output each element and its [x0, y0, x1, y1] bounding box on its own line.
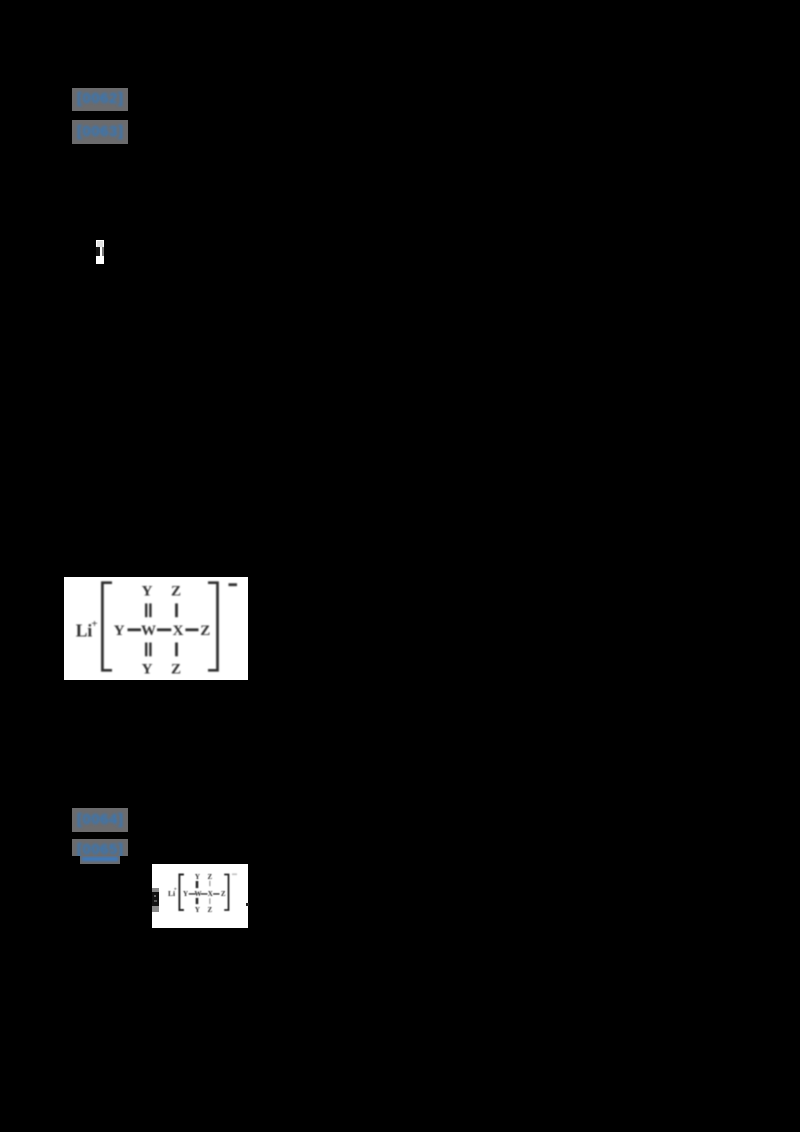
double bond bottom (blob) — [196, 898, 199, 904]
svg-text:Y: Y — [183, 890, 188, 898]
svg-text:Y: Y — [195, 906, 200, 914]
left bracket — [102, 583, 112, 671]
faint superscript minus — [232, 873, 237, 875]
tiny thumbnail — [96, 240, 104, 264]
svg-text:Y: Y — [114, 623, 125, 639]
svg-text:Z: Z — [207, 873, 212, 881]
svg-text:Z: Z — [171, 662, 181, 678]
tiny dark tick right edge — [246, 903, 249, 906]
bond Y-W — [189, 893, 196, 894]
superscript minus charge — [229, 583, 238, 586]
highlight box 4 [0065] stepped — [72, 839, 128, 856]
svg-text:+: + — [174, 887, 177, 893]
single bond bottom — [209, 898, 210, 904]
svg-text:Z: Z — [207, 906, 212, 914]
right bracket — [224, 875, 228, 911]
highlight box 3 [0064] — [72, 808, 128, 832]
single bond top — [209, 881, 210, 886]
dark text block at left edge — [152, 888, 159, 912]
svg-text:Z: Z — [200, 623, 210, 639]
svg-text:Z: Z — [221, 890, 226, 898]
svg-text:Y: Y — [142, 584, 153, 600]
bond W-X — [201, 893, 208, 894]
right bracket — [208, 583, 218, 671]
bond X-Z — [185, 628, 198, 631]
formula panel 1 — [64, 577, 248, 680]
svg-text:X: X — [208, 890, 213, 898]
bond W-X — [157, 628, 171, 631]
formula panel 2 — [152, 864, 248, 928]
svg-text:Y: Y — [142, 662, 153, 678]
highlight box 1 [0062] — [72, 88, 128, 111]
single bond X-Z top — [175, 603, 178, 617]
svg-text:W: W — [195, 890, 202, 898]
left bracket — [179, 875, 184, 911]
svg-text:W: W — [141, 623, 156, 639]
highlight box 2 [0063] — [72, 120, 128, 144]
double bond top (blob) — [196, 881, 199, 888]
svg-text:Y: Y — [195, 873, 200, 881]
double bond W=Y top — [145, 603, 147, 617]
bond X-Z — [213, 893, 219, 894]
bond Y-W — [128, 628, 142, 631]
double bond W=Y bottom — [145, 643, 147, 657]
svg-text:Z: Z — [171, 584, 181, 600]
svg-text:+: + — [91, 618, 97, 630]
svg-text:Li: Li — [76, 621, 93, 641]
single bond X-Z bottom — [175, 643, 178, 657]
svg-text:X: X — [173, 623, 184, 639]
